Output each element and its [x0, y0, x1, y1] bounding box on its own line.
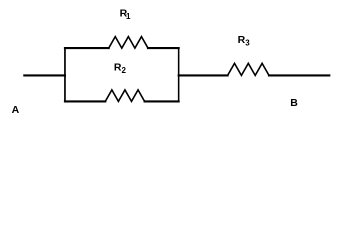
- wire: lead from parallel section to R3: [179, 74, 228, 76]
- wire: top branch right segment: [148, 47, 179, 49]
- wire: bottom branch right segment: [145, 100, 179, 102]
- wire: bottom branch left segment: [65, 100, 105, 102]
- resistor R3: [228, 63, 269, 75]
- wire: right lead from R3 to node B: [269, 74, 329, 76]
- wire: right vertical bus of parallel section: [178, 48, 180, 101]
- svg-text:A: A: [12, 104, 20, 116]
- wire: top branch left segment: [65, 47, 109, 49]
- wire: left vertical bus of parallel section: [64, 48, 66, 101]
- resistor R1: [109, 37, 148, 49]
- resistor R2: [105, 90, 144, 102]
- wire: left lead from node A to parallel box: [24, 74, 65, 76]
- svg-text:B: B: [290, 97, 298, 109]
